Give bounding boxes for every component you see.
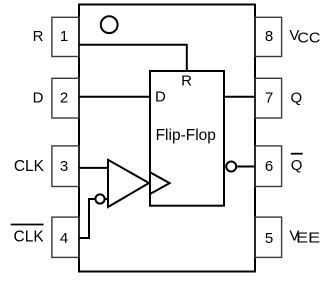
svg-text:7: 7 — [265, 90, 273, 107]
svg-text:D: D — [155, 89, 166, 106]
svg-text:D: D — [33, 90, 44, 107]
svg-text:8: 8 — [265, 28, 273, 45]
flip-flop clock chevron — [150, 172, 170, 194]
wire Qbar: bubble to pin6 — [237, 166, 255, 168]
pin-1 indicator circle — [101, 16, 118, 33]
svg-text:1: 1 — [60, 28, 68, 45]
svg-text:EE: EE — [296, 230, 320, 246]
clock buffer triangle — [108, 160, 149, 207]
pin 6 box — [255, 146, 282, 187]
svg-text:Q: Q — [291, 89, 303, 106]
svg-text:R: R — [181, 72, 192, 89]
inverting bubble on CLKbar input — [95, 194, 104, 203]
svg-text:Flip-Flop: Flip-Flop — [156, 127, 216, 144]
wire bubble to triangle — [105, 198, 108, 200]
svg-text:Q: Q — [291, 157, 303, 174]
pin 7 box — [255, 78, 282, 118]
wire CLKbar: pin4 up to inverting buffer input — [79, 199, 95, 238]
svg-text:CLK: CLK — [14, 228, 45, 245]
svg-text:6: 6 — [265, 158, 273, 175]
svg-text:R: R — [33, 28, 44, 45]
pin 3 box — [52, 146, 79, 187]
pin 5 box — [255, 217, 282, 257]
pin 1 box — [52, 17, 79, 56]
svg-text:5: 5 — [265, 230, 273, 247]
pin 4 box — [52, 217, 79, 257]
svg-text:3: 3 — [60, 158, 68, 175]
svg-text:CLK: CLK — [14, 158, 45, 175]
pin 2 box — [52, 78, 79, 118]
inverting bubble on Qbar output — [226, 162, 236, 172]
pin 8 box — [255, 17, 282, 56]
wire D: pin2 to flip-flop D input — [79, 96, 150, 98]
wire R: pin1 to flip-flop R input — [79, 45, 187, 71]
IC body U1 (DIP-8 outline) — [79, 5, 255, 272]
CLKbar overline — [11, 224, 44, 226]
svg-text:4: 4 — [60, 230, 68, 247]
flip-flop box U2 — [150, 71, 224, 206]
svg-text:2: 2 — [60, 90, 68, 107]
Qbar overline — [291, 153, 303, 155]
svg-text:CC: CC — [297, 30, 320, 46]
wire CLK: pin3 to buffer input — [79, 167, 108, 169]
wire Q: flip-flop to pin7 — [224, 96, 255, 98]
